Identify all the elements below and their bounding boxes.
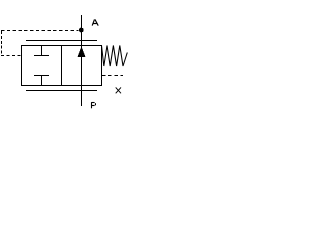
port label A xyxy=(92,19,98,25)
valve position divider xyxy=(61,46,63,86)
valve body outer rectangle xyxy=(22,46,102,86)
upper rail line xyxy=(26,40,97,42)
pilot dashed line top horizontal xyxy=(1,30,79,32)
pilot junction dot xyxy=(79,28,84,33)
pilot X dashed line xyxy=(102,75,124,77)
port label P xyxy=(92,102,96,108)
blocked port T bottom (left cell) xyxy=(34,76,49,86)
pilot dashed line left vertical xyxy=(1,31,3,56)
flow direction arrowhead xyxy=(78,47,85,56)
lower rail line xyxy=(26,90,97,92)
pilot dashed line bottom horizontal to valve xyxy=(1,55,22,57)
blocked port T top (left cell) xyxy=(34,46,49,57)
return spring xyxy=(102,46,128,67)
port label X xyxy=(116,87,121,93)
flow line A to P (vertical through right cell) xyxy=(81,15,83,106)
